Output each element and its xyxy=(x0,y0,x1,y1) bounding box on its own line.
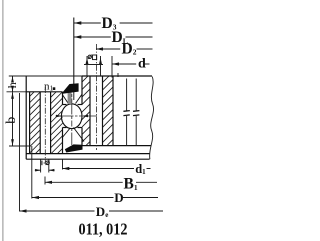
svg-text:D2: D2 xyxy=(122,40,137,57)
svg-text:n1: n1 xyxy=(44,81,54,93)
svg-text:h: h xyxy=(5,82,19,88)
svg-text:b: b xyxy=(4,117,19,124)
svg-text:d1: d1 xyxy=(135,162,146,176)
svg-text:011, 012: 011, 012 xyxy=(79,220,128,239)
svg-text:D: D xyxy=(114,190,123,205)
svg-text:d: d xyxy=(138,57,146,72)
svg-text:B1: B1 xyxy=(124,176,138,193)
svg-text:De: De xyxy=(96,204,109,219)
